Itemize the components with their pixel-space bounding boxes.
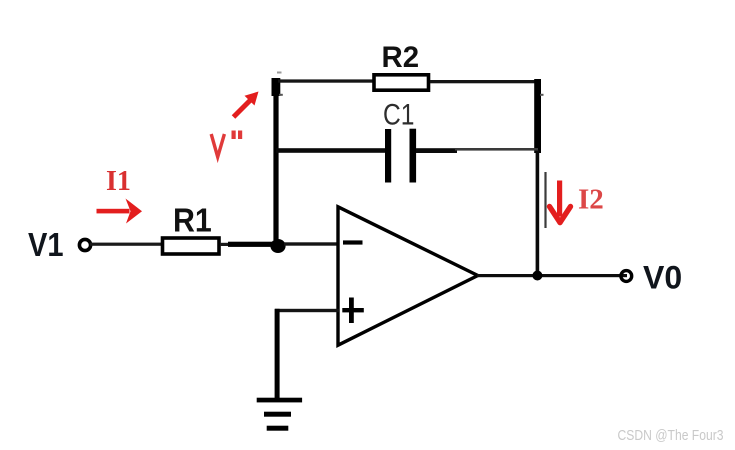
wire C1 left lead: [276, 148, 385, 153]
output terminal (open circle): [621, 271, 632, 282]
resistor R2: [374, 75, 429, 90]
svg-text:I2: I2: [578, 184, 604, 216]
wire top left segment: [278, 79, 373, 82]
wire junction to op-amp inverting input: [284, 242, 338, 245]
tick mark on riser: [279, 94, 283, 96]
node V'' arrow: [234, 92, 259, 118]
tick mark on right riser: [540, 94, 544, 96]
resistor R1: [163, 238, 220, 254]
op-amp non-inverting input plus sign: [342, 308, 364, 312]
svg-text:V1: V1: [28, 226, 64, 263]
stray pen line near I2: [544, 172, 546, 228]
svg-text:R1: R1: [173, 201, 212, 238]
wire ground riser: [275, 309, 280, 400]
svg-text:CSDN @The Four3: CSDN @The Four3: [618, 428, 724, 444]
current I2 arrow: [550, 181, 571, 223]
node junction dot (inverting input node): [270, 239, 285, 253]
node output junction dot: [532, 271, 542, 281]
svg-text:R2: R2: [382, 41, 420, 74]
wire V1 terminal to R1: [90, 243, 162, 246]
V'' quote ticks: [232, 131, 236, 140]
tick mark above riser: [277, 72, 282, 74]
op-amp U1 triangle: [338, 207, 478, 345]
wire op-amp output: [477, 274, 627, 277]
capacitor C1 left plate: [385, 129, 391, 183]
wire C1 right lead (thin): [455, 148, 538, 151]
ground bar 3: [267, 426, 289, 431]
wire R1 to junction: [220, 243, 230, 246]
svg-text:V0: V0: [643, 260, 682, 296]
wire top right segment: [430, 80, 538, 83]
capacitor C1 right plate: [410, 129, 417, 183]
node V'' label: [211, 134, 224, 157]
wire non-inverting input horizontal: [275, 309, 339, 312]
ground bar 1: [257, 398, 302, 403]
wire C1 right lead (thick): [416, 148, 457, 153]
svg-text:C1: C1: [383, 97, 414, 131]
svg-text:I1: I1: [106, 166, 131, 197]
op-amp inverting input minus sign: [343, 240, 363, 244]
ground bar 2: [264, 412, 291, 417]
current I1 arrow: [97, 199, 143, 224]
wire feedback right riser: [534, 79, 541, 153]
wire feedback left riser: [272, 78, 281, 96]
input terminal (open circle): [79, 239, 90, 250]
